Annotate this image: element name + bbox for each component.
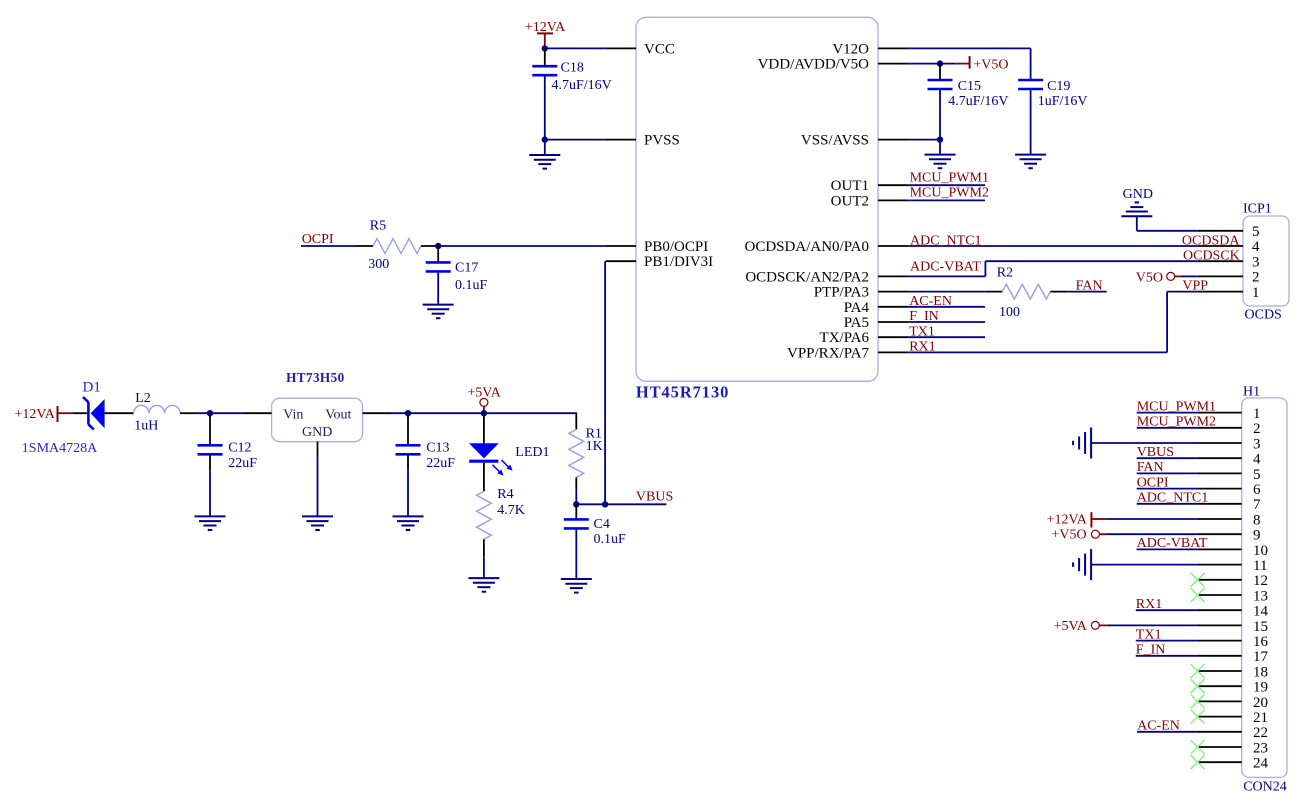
svg-text:VBUS: VBUS (1137, 445, 1174, 460)
svg-text:AC-EN: AC-EN (909, 294, 952, 309)
no connect X at H1 pin24 (1191, 755, 1205, 769)
svg-text:MCU_PWM1: MCU_PWM1 (910, 171, 989, 186)
wire C19 to ground (1030, 89, 1032, 155)
U1 pin PB0/OCPI (606, 245, 636, 247)
node R5/C17/PB0 (435, 243, 441, 249)
power port +V5O (top) (955, 56, 969, 69)
svg-text:F_IN: F_IN (909, 309, 939, 324)
svg-text:4.7uF/16V: 4.7uF/16V (552, 78, 612, 93)
svg-text:+V5O: +V5O (973, 58, 1008, 73)
svg-text:Vin: Vin (283, 407, 303, 422)
no connect X at H1 pin18 (1191, 664, 1205, 678)
capacitor C12 plates (198, 445, 223, 454)
svg-text:+12VA: +12VA (1047, 513, 1088, 528)
LED LED1 anode pin (483, 413, 485, 443)
svg-text:12: 12 (1253, 573, 1268, 589)
power port +12VA (H1 pin8) (1091, 512, 1106, 527)
svg-text:FAN: FAN (1137, 460, 1164, 475)
svg-text:PA5: PA5 (844, 315, 869, 331)
capacitor C12 bottom pin (209, 454, 211, 471)
connector H1 body (1242, 398, 1287, 778)
wire C15 to VSS (939, 89, 941, 140)
svg-text:0.1uF: 0.1uF (594, 532, 627, 547)
svg-text:D1: D1 (83, 380, 101, 396)
wire H1 pin4 / net VBUS (1137, 457, 1198, 459)
U1 pin VPP/RX/PA7 (878, 351, 908, 353)
H1 pin 17 (1198, 655, 1242, 657)
H1 pin 7 (1198, 503, 1242, 505)
U1 pin V12O (878, 47, 908, 49)
svg-text:15: 15 (1253, 619, 1268, 635)
svg-text:18: 18 (1253, 664, 1268, 680)
svg-text:5: 5 (1253, 467, 1261, 483)
wire C12 to ground (209, 471, 211, 517)
svg-text:10: 10 (1253, 543, 1268, 559)
node VDD/C15 (937, 60, 943, 66)
svg-text:RX1: RX1 (909, 340, 935, 355)
ground under C13 (393, 516, 424, 530)
svg-text:L2: L2 (135, 391, 151, 406)
svg-text:100: 100 (999, 305, 1020, 320)
svg-text:300: 300 (368, 257, 389, 272)
wire H1 pin7 / net ADC_NTC1 (1137, 503, 1198, 505)
H1 pin 13 (1198, 594, 1242, 596)
ground at H1 pin3 (1073, 428, 1091, 459)
svg-text:3: 3 (1253, 436, 1261, 452)
svg-text:4.7uF/16V: 4.7uF/16V (948, 94, 1008, 109)
H1 pin 11 (1198, 564, 1242, 566)
power port +5VA (H1 pin15) (1091, 621, 1099, 629)
H1 pin 12 (1198, 579, 1242, 581)
resistor R1 (575, 413, 577, 429)
svg-text:PB1/DIV3I: PB1/DIV3I (644, 254, 713, 270)
svg-text:2: 2 (1252, 270, 1260, 286)
svg-text:C12: C12 (228, 441, 251, 456)
svg-text:2: 2 (1253, 421, 1261, 437)
svg-text:4: 4 (1252, 239, 1260, 255)
resistor R4 (483, 463, 485, 491)
node LED/rail (481, 410, 487, 416)
ground under C19 (1015, 155, 1046, 169)
svg-text:21: 21 (1253, 710, 1268, 726)
wire H1 pin15 (1107, 624, 1198, 626)
capacitor C12 top pin (209, 413, 211, 445)
no connect X at H1 pin20 (1191, 694, 1205, 708)
H1 pin 14 (1198, 609, 1242, 611)
diode D1 anode pin (73, 412, 88, 414)
wire H1 pin2 / net MCU_PWM2 (1137, 427, 1198, 429)
svg-text:1: 1 (1253, 406, 1261, 422)
svg-text:F_IN: F_IN (1136, 643, 1166, 658)
wire ADC-VBAT / OCDSCK net (908, 261, 1197, 276)
svg-text:VPP/RX/PA7: VPP/RX/PA7 (787, 345, 869, 361)
svg-text:6: 6 (1253, 482, 1261, 498)
ground under C17 (423, 305, 454, 319)
node PB1/VBUS (602, 501, 608, 507)
wire C13 to ground (407, 471, 409, 517)
ground under C15 (925, 155, 956, 169)
svg-text:TX1: TX1 (909, 324, 935, 339)
wire H1 pin8 (1106, 518, 1197, 520)
svg-text:R5: R5 (370, 219, 386, 234)
wire FAN net (1067, 291, 1107, 293)
power port +12VA (left) (58, 406, 74, 422)
capacitor C17 top pin (437, 246, 439, 262)
wire V5O to ICP1 pin2 (1182, 275, 1198, 277)
wire to ground (544, 140, 546, 155)
wire VCC net (545, 47, 606, 49)
capacitor C18 top pin (544, 48, 546, 65)
svg-text:22: 22 (1253, 725, 1268, 741)
H1 pin 10 (1198, 548, 1242, 550)
diode D1 (zener) (83, 397, 105, 430)
svg-text:9: 9 (1253, 528, 1261, 544)
wire GND to ICP1 pin5 (1137, 216, 1198, 231)
svg-text:C18: C18 (561, 61, 584, 76)
svg-text:OCDSCK/AN2/PA2: OCDSCK/AN2/PA2 (745, 269, 869, 285)
H1 pin 15 (1198, 624, 1242, 626)
svg-text:4: 4 (1253, 452, 1261, 468)
U1 pin PTP/PA3 (878, 291, 908, 293)
wire OUT1 / net MCU_PWM1 (908, 184, 985, 186)
svg-text:HT45R7130: HT45R7130 (636, 382, 729, 401)
wire VSS/AVSS net (908, 139, 940, 141)
svg-text:13: 13 (1253, 588, 1268, 604)
ground under C18 (529, 155, 560, 169)
svg-text:+5VA: +5VA (1054, 619, 1088, 634)
svg-text:1: 1 (1252, 285, 1260, 301)
regulator U2 HT73H50 body (272, 398, 363, 442)
svg-text:FAN: FAN (1076, 279, 1103, 294)
svg-text:PVSS: PVSS (644, 133, 680, 149)
wire PA4 / net AC-EN (908, 306, 985, 308)
svg-text:OUT2: OUT2 (831, 193, 869, 209)
svg-text:R2: R2 (997, 266, 1013, 281)
H1 pin 19 (1198, 685, 1242, 687)
inductor L2 (134, 405, 181, 413)
U1 pin TX/PA6 (878, 336, 908, 338)
wire H1 pin22 / net AC-EN (1137, 731, 1198, 733)
svg-text:ADC-VBAT: ADC-VBAT (910, 259, 981, 274)
svg-text:RX1: RX1 (1136, 597, 1162, 612)
svg-text:GND: GND (1123, 187, 1153, 202)
wire C17 to ground (437, 271, 439, 304)
U1 pin VCC (606, 47, 636, 49)
svg-text:VBUS: VBUS (636, 490, 673, 505)
no connect X at H1 pin13 (1191, 588, 1205, 602)
ICP1 pin 2 (1198, 275, 1243, 277)
capacitor C15 top pin (939, 64, 941, 80)
svg-text:ADC-VBAT: ADC-VBAT (1137, 536, 1208, 551)
svg-text:PA4: PA4 (844, 300, 870, 316)
LED LED1 (469, 443, 513, 475)
svg-text:1uF/16V: 1uF/16V (1038, 94, 1088, 109)
no connect X at H1 pin23 (1191, 740, 1205, 754)
wire PA5 / net F_IN (908, 321, 985, 323)
wire H1 pin3 to ground (1091, 442, 1198, 444)
svg-text:+12VA: +12VA (15, 407, 56, 422)
svg-text:C15: C15 (958, 79, 981, 94)
resistor R2 (985, 291, 1002, 293)
svg-text:19: 19 (1253, 680, 1268, 696)
inductor L2 right pin (180, 412, 195, 414)
ground under C4 (561, 579, 592, 593)
wire H1 pin1 / net MCU_PWM1 (1137, 412, 1198, 414)
regulator pin GND (317, 442, 319, 455)
ground under R4 (468, 578, 499, 592)
node PVSS/C18 (542, 136, 548, 142)
regulator pin Vin (244, 412, 272, 414)
svg-text:C13: C13 (426, 441, 449, 456)
wire ADC_NTC1 / OCDSDA net (908, 245, 1197, 247)
svg-text:MCU_PWM2: MCU_PWM2 (910, 186, 989, 201)
node R1/C4/VBUS (573, 501, 579, 507)
svg-text:22uF: 22uF (426, 456, 455, 471)
svg-text:OCPI: OCPI (302, 232, 334, 247)
svg-text:VDD/AVDD/V5O: VDD/AVDD/V5O (758, 57, 870, 73)
regulator pin Vout (363, 412, 391, 414)
wire rail to R1 (575, 411, 577, 414)
svg-text:MCU_PWM2: MCU_PWM2 (1137, 415, 1216, 430)
svg-text:LED1: LED1 (515, 445, 549, 460)
H1 pin 22 (1198, 731, 1242, 733)
wire H1 pin11 to ground (1091, 564, 1198, 566)
no connect X at H1 pin21 (1191, 710, 1205, 724)
no connect X at H1 pin12 (1191, 573, 1205, 587)
H1 pin 20 (1198, 700, 1242, 702)
wire PTP/PA3 to R2 (908, 291, 985, 293)
svg-text:16: 16 (1253, 634, 1269, 650)
capacitor C19 plates (1018, 80, 1043, 89)
svg-text:4.7K: 4.7K (497, 503, 525, 518)
H1 pin 9 (1198, 533, 1242, 535)
ground at H1 pin11 (1073, 549, 1091, 580)
svg-text:R4: R4 (497, 487, 513, 502)
svg-text:V5O: V5O (1136, 270, 1163, 285)
wire to ground (939, 140, 941, 155)
capacitor C13 plates (396, 445, 421, 454)
U1 pin PA4 (878, 306, 908, 308)
U1 pin PB1/DIV3I (606, 260, 636, 262)
svg-text:Vout: Vout (325, 407, 351, 422)
H1 pin 6 (1198, 488, 1242, 490)
svg-text:OUT1: OUT1 (831, 178, 869, 194)
wire H1 pin9 (1107, 533, 1198, 535)
svg-text:AC-EN: AC-EN (1137, 719, 1180, 734)
node C13/rail (405, 410, 411, 416)
wire VPP/RX/PA7 / net RX1 to ICP1 pin1 (908, 292, 1197, 353)
svg-text:7: 7 (1253, 497, 1261, 513)
wire R5 junction to PB0/OCPI pin (438, 245, 605, 247)
H1 pin 23 (1198, 746, 1242, 748)
svg-text:14: 14 (1253, 604, 1269, 620)
wire C18 to PVSS (544, 75, 546, 139)
wire H1 pin16 / net TX1 (1136, 640, 1198, 642)
capacitor C15 plates (928, 80, 953, 89)
H1 pin 3 (1198, 442, 1242, 444)
U1 pin OUT1 (878, 184, 908, 186)
wire H1 pin5 / net FAN (1137, 472, 1198, 474)
H1 pin 21 (1198, 716, 1242, 718)
H1 pin 8 (1198, 518, 1242, 520)
U1 pin PVSS (606, 139, 636, 141)
wire R1 to VBUS node (575, 491, 577, 505)
no connect X at H1 pin19 (1191, 679, 1205, 693)
H1 pin 24 (1198, 761, 1242, 763)
wire C4 to ground (575, 528, 577, 579)
node VSS/C15 (937, 136, 943, 142)
svg-text:OCDSDA/AN0/PA0: OCDSDA/AN0/PA0 (745, 239, 869, 255)
U1 pin OCDSDA/AN0/PA0 (878, 245, 908, 247)
capacitor C13 bottom pin (407, 454, 409, 471)
svg-text:ADC_NTC1: ADC_NTC1 (1137, 491, 1209, 506)
svg-text:24: 24 (1253, 756, 1269, 772)
svg-text:3: 3 (1252, 254, 1260, 270)
wire PVSS net (545, 139, 606, 141)
wire L2 to regulator Vin (195, 412, 244, 414)
H1 pin 2 (1198, 427, 1242, 429)
diode D1 cathode pin (105, 412, 134, 414)
wire V12O net (908, 48, 1030, 80)
svg-text:C19: C19 (1047, 79, 1070, 94)
svg-text:ICP1: ICP1 (1243, 201, 1272, 216)
svg-text:H1: H1 (1243, 385, 1260, 400)
ICP1 pin 4 (1198, 245, 1243, 247)
H1 pin 4 (1198, 457, 1242, 459)
wire H1 pin6 / net OCPI (1137, 488, 1198, 490)
wire regulator GND to ground (317, 455, 319, 516)
svg-text:0.1uF: 0.1uF (455, 278, 488, 293)
svg-text:5: 5 (1252, 224, 1260, 240)
wire H1 pin14 / net RX1 (1136, 609, 1198, 611)
wire VBUS net (576, 503, 666, 505)
svg-text:VCC: VCC (644, 41, 675, 57)
svg-text:GND: GND (302, 425, 332, 440)
U1 pin PA5 (878, 321, 908, 323)
wire TX/PA6 / net TX1 (908, 336, 985, 338)
ICP1 pin 5 (1198, 230, 1243, 232)
wire H1 pin10 / net ADC-VBAT (1137, 548, 1198, 550)
wire H1 pin17 / net F_IN (1136, 655, 1198, 657)
svg-text:20: 20 (1253, 695, 1268, 711)
capacitor C4 top pin (575, 504, 577, 519)
svg-text:CON24: CON24 (1243, 780, 1287, 795)
svg-text:1uH: 1uH (134, 419, 158, 434)
resistor R5 (356, 245, 373, 247)
U1 pin OCDSCK/AN2/PA2 (878, 275, 908, 277)
svg-text:TX/PA6: TX/PA6 (820, 330, 870, 346)
U1 pin VDD/AVDD/V5O (878, 63, 908, 65)
capacitor C18 plates (532, 66, 557, 75)
svg-text:PB0/OCPI: PB0/OCPI (644, 239, 708, 255)
svg-text:MCU_PWM1: MCU_PWM1 (1137, 399, 1216, 414)
ground under C12 (195, 516, 226, 530)
U1 pin OUT2 (878, 199, 908, 201)
svg-text:VSS/AVSS: VSS/AVSS (801, 133, 869, 149)
svg-text:22uF: 22uF (228, 456, 257, 471)
svg-text:TX1: TX1 (1136, 627, 1162, 642)
wire VDD/AVDD/V5O net (908, 63, 955, 65)
svg-text:8: 8 (1253, 512, 1261, 528)
IC U1 HT45R7130 body (636, 17, 878, 381)
svg-text:11: 11 (1253, 558, 1267, 574)
svg-text:1SMA4728A: 1SMA4728A (22, 441, 98, 456)
capacitor C17 plates (426, 262, 451, 271)
svg-text:1K: 1K (586, 439, 603, 454)
svg-text:OCDS: OCDS (1245, 308, 1282, 323)
svg-text:+V5O: +V5O (1051, 528, 1086, 543)
H1 pin 5 (1198, 472, 1242, 474)
power port +12VA (top) (537, 33, 553, 48)
H1 pin 16 (1198, 640, 1242, 642)
svg-text:23: 23 (1253, 740, 1268, 756)
ICP1 pin 3 (1198, 260, 1243, 262)
node VCC/C18 (542, 45, 548, 51)
svg-text:C17: C17 (455, 261, 478, 276)
svg-text:HT73H50: HT73H50 (286, 370, 345, 385)
wire Vout to +5VA rail (391, 412, 577, 414)
svg-text:PTP/PA3: PTP/PA3 (814, 285, 869, 301)
svg-text:17: 17 (1253, 649, 1269, 665)
wire OCPI net (301, 245, 356, 247)
svg-text:ADC_NTC1: ADC_NTC1 (910, 233, 982, 248)
wire OUT2 / net MCU_PWM2 (908, 199, 985, 201)
svg-text:+12VA: +12VA (525, 20, 566, 35)
svg-text:V12O: V12O (832, 41, 869, 57)
power port +V5O (H1 pin9) (1091, 530, 1099, 538)
ICP1 pin 1 (1198, 291, 1243, 293)
node C12/rail (207, 410, 213, 416)
connector ICP1 body (1243, 216, 1289, 306)
svg-text:OCPI: OCPI (1137, 475, 1169, 490)
wire PB1/DIV3I to VBUS node (604, 261, 606, 504)
capacitor C4 plates (564, 519, 589, 528)
H1 pin 18 (1198, 670, 1242, 672)
capacitor C13 top pin (407, 413, 409, 445)
ground under regulator (302, 516, 333, 530)
svg-text:C4: C4 (594, 517, 610, 532)
H1 pin 1 (1198, 412, 1242, 414)
U1 pin VSS/AVSS (878, 139, 908, 141)
wire R4 to ground (483, 556, 485, 578)
